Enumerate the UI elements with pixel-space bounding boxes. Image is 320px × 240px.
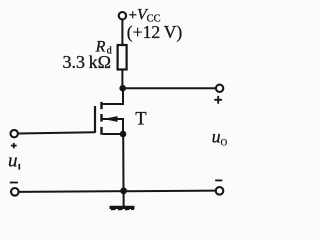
label minus input [10, 182, 18, 184]
terminal input minus [11, 188, 19, 196]
channel bar body segment [100, 114, 102, 122]
terminal output plus [216, 85, 223, 92]
node drain junction [119, 85, 126, 92]
gate bar [94, 106, 96, 133]
terminal input plus [11, 130, 18, 137]
wire source to bottom rail [122, 134, 124, 191]
svg-text:u: u [8, 151, 18, 172]
svg-text:(+12 V): (+12 V) [127, 22, 183, 42]
wire resistor to drain node [121, 70, 123, 91]
svg-text:3.3 kΩ: 3.3 kΩ [63, 52, 111, 72]
label minus output [215, 179, 222, 181]
label plus output [214, 96, 222, 104]
node source junction [120, 131, 127, 138]
label u_o [212, 127, 228, 148]
transistor T (N-channel MOSFET) [95, 89, 123, 135]
drain lead [103, 89, 123, 105]
wire bottom rail [18, 191, 216, 192]
channel bar drain segment [100, 102, 102, 109]
label +VCC [129, 7, 161, 25]
svg-text:T: T [135, 109, 146, 129]
ground [110, 191, 135, 210]
svg-text:O: O [221, 138, 228, 148]
body lead with arrow [103, 119, 123, 134]
wire input to gate [18, 132, 95, 133]
resistor Rd [118, 45, 127, 70]
source lead [103, 133, 123, 135]
node bottom junction [120, 188, 127, 195]
channel bar source segment [100, 127, 102, 135]
terminal VCC [119, 12, 126, 19]
wire vcc to resistor [121, 19, 123, 45]
label plus input [11, 143, 17, 148]
label u_i [8, 151, 19, 172]
terminal output minus [216, 187, 224, 195]
label Rd [95, 39, 112, 57]
wire drain node to output terminal [123, 87, 217, 89]
svg-text:u: u [212, 127, 221, 147]
